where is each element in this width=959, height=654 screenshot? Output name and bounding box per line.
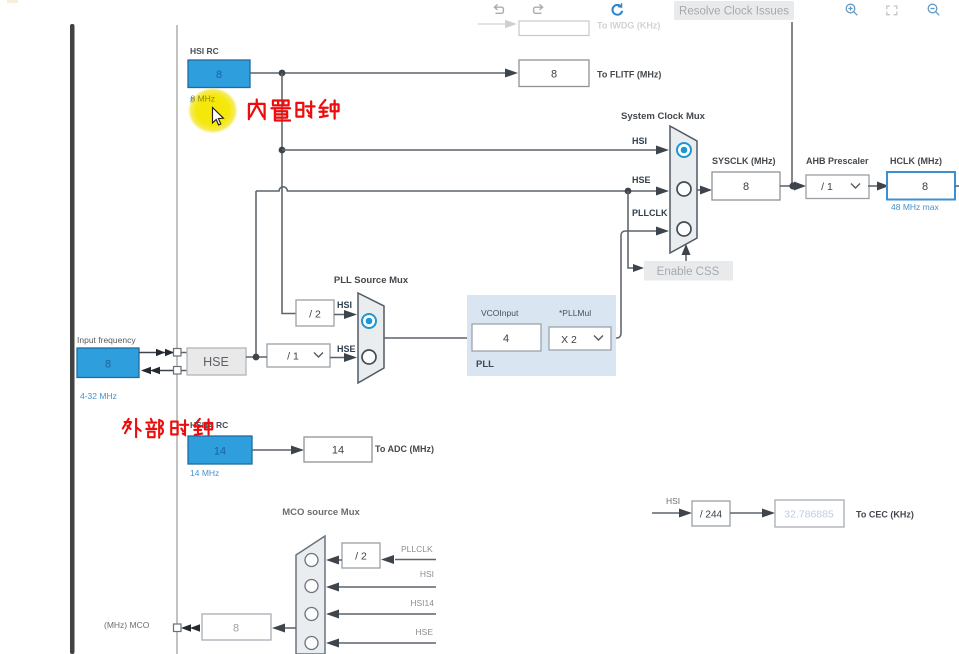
/2 divider box — [296, 300, 334, 326]
svg-text:14: 14 — [332, 445, 344, 457]
To FLITF value box — [519, 60, 589, 87]
svg-text:Input frequency: Input frequency — [77, 335, 136, 345]
To ADC value box — [304, 437, 372, 462]
glyph nei — [249, 99, 265, 119]
CEC value box — [775, 500, 844, 527]
AHB Prescaler dropdown — [806, 175, 869, 199]
CSS arrow into mux bottom — [685, 253, 687, 261]
junction HSE — [253, 354, 260, 361]
arrowhead HSE into system clock mux — [656, 187, 669, 196]
svg-text:/ 2: / 2 — [355, 551, 367, 563]
wire /2 mco to mux — [337, 559, 342, 561]
svg-text:PLLCLK: PLLCLK — [401, 544, 433, 554]
wire /2 to PLL mux — [334, 314, 346, 316]
HSI14 RC oscillator block — [188, 436, 252, 464]
MCO value box — [202, 614, 271, 640]
wire PLL mux to VCOInput — [384, 337, 472, 339]
wire HSE block out — [246, 356, 267, 358]
radio MCO hse — [305, 637, 318, 650]
svg-text:Enable CSS: Enable CSS — [657, 266, 720, 278]
PLLMul dropdown — [549, 327, 611, 350]
faded wire to IWDG box — [478, 23, 506, 25]
svg-text:4-32 MHz: 4-32 MHz — [80, 391, 117, 401]
MCO mux body — [296, 536, 325, 654]
port square HSE out — [174, 367, 182, 375]
port square HSE in — [174, 349, 182, 357]
svg-text:HSI: HSI — [337, 300, 352, 310]
svg-text:To CEC (KHz): To CEC (KHz) — [856, 510, 914, 520]
Enable CSS button — [644, 261, 733, 281]
faded arrowhead IWDG — [505, 20, 517, 28]
arrowhead into FLITF box — [505, 69, 518, 78]
glyph zhong2 — [194, 419, 212, 436]
radio MCO pllclk — [305, 554, 318, 567]
arrowhead HSI into system clock mux — [656, 146, 669, 155]
svg-text:AHB Prescaler: AHB Prescaler — [806, 156, 869, 166]
svg-text:/ 1: / 1 — [287, 351, 299, 363]
wire mux to MCO value box — [284, 627, 296, 629]
radio MCO hsi — [305, 580, 318, 593]
svg-text:HSI: HSI — [632, 136, 647, 146]
left dark splitter bar — [70, 24, 75, 654]
arrowhead into Enable CSS — [633, 264, 644, 272]
junction HSI at x282 — [279, 70, 286, 77]
toolbar refresh icon — [613, 3, 623, 14]
red annotation: 外部时钟 — [123, 419, 212, 438]
svg-text:PLL: PLL — [476, 359, 494, 370]
svg-text:*PLLMul: *PLLMul — [559, 308, 591, 318]
svg-text:MCO source Mux: MCO source Mux — [282, 507, 360, 518]
wire sysmux output to SYSCLK box — [697, 189, 701, 191]
mouse cursor — [213, 108, 224, 126]
toolbar redo icon — [534, 4, 543, 13]
svg-text:HCLK (MHz): HCLK (MHz) — [890, 156, 942, 166]
top-left faint artifact — [7, 0, 18, 3]
svg-text:HSI: HSI — [666, 496, 680, 506]
radio MCO hsi14 — [305, 608, 318, 621]
toolbar zoom-out icon — [928, 4, 939, 15]
SYSCLK value box — [712, 172, 780, 200]
wire HSI vertical trunk — [282, 73, 296, 314]
MCO out double arrows — [181, 624, 191, 631]
Input frequency blue box — [77, 348, 139, 378]
svg-text:HSE: HSE — [203, 355, 229, 369]
svg-text:/ 2: / 2 — [309, 309, 321, 321]
svg-text:HSI14: HSI14 — [410, 598, 434, 608]
glyph bu — [146, 419, 163, 438]
svg-text:To ADC (MHz): To ADC (MHz) — [375, 444, 434, 454]
svg-text:To FLITF (MHz): To FLITF (MHz) — [597, 70, 661, 80]
red annotation: 内置时钟 — [249, 99, 339, 120]
svg-text:4: 4 — [503, 333, 509, 345]
svg-text:/ 244: / 244 — [700, 510, 723, 521]
PLL block background — [467, 295, 616, 376]
wire HSI RC to FLITF — [250, 72, 505, 74]
HSE oscillator block — [187, 348, 246, 375]
svg-text:32.786885: 32.786885 — [784, 509, 834, 521]
svg-text:(MHz) MCO: (MHz) MCO — [104, 620, 150, 630]
svg-text:HSI: HSI — [420, 569, 434, 579]
arrowhead PLLCLK into system clock mux — [656, 227, 669, 236]
wire HSE trunk up and to system clock mux with hop — [256, 187, 656, 357]
radio PLL HSI selected — [362, 314, 376, 328]
wire HCLK continue right — [955, 185, 959, 187]
toolbar zoom-in icon — [846, 4, 857, 15]
wire HSI to system clock mux — [282, 149, 656, 151]
wire /244 to CEC box — [730, 512, 764, 514]
wire HSE down to Enable CSS — [628, 191, 634, 268]
junction HSE to CSS — [625, 188, 632, 195]
wire HSE into mux — [337, 642, 436, 644]
svg-text:14: 14 — [214, 446, 226, 458]
wire SYSCLK to AHB with riser — [780, 185, 795, 187]
system clock mux body — [670, 126, 697, 253]
toolbar Resolve Clock Issues button — [674, 1, 794, 20]
svg-text:8: 8 — [551, 69, 557, 81]
HSI RC oscillator block — [188, 60, 250, 88]
radio HSI selected — [677, 143, 691, 157]
HCLK value box blue border — [887, 172, 955, 200]
/2 mco divider box — [342, 543, 380, 568]
wire HSI into mux — [337, 586, 436, 588]
toolbar undo icon — [494, 4, 503, 13]
wire AHB to HCLK — [868, 185, 878, 187]
radio HSE — [677, 182, 691, 196]
svg-text:PLL Source Mux: PLL Source Mux — [334, 275, 409, 286]
glyph zhi — [271, 100, 290, 120]
/244 divider box — [692, 501, 730, 526]
PLL source mux body — [358, 293, 384, 383]
svg-text:Resolve Clock Issues: Resolve Clock Issues — [679, 6, 789, 18]
junction HSI to sysmux — [279, 147, 286, 154]
svg-text:48 MHz max: 48 MHz max — [891, 202, 939, 212]
svg-text:VCOInput: VCOInput — [481, 308, 519, 318]
highlight circle around cursor — [188, 88, 238, 134]
wire input freq to HSE in — [139, 352, 174, 354]
svg-text:8: 8 — [233, 623, 239, 635]
svg-text:System Clock Mux: System Clock Mux — [621, 111, 706, 122]
svg-text:PLLCLK: PLLCLK — [632, 208, 668, 218]
radio PLLCLK — [677, 222, 691, 236]
svg-text:8: 8 — [216, 69, 222, 81]
svg-text:HSI RC: HSI RC — [190, 46, 219, 56]
wire PLLCLK from PLL to system clock mux — [611, 231, 656, 338]
wire /1 to PLL mux — [330, 357, 346, 359]
wire PLLCLK into /2 mco — [395, 559, 436, 561]
glyph zhong — [319, 100, 338, 119]
svg-text:X 2: X 2 — [561, 334, 577, 346]
glyph shi2 — [171, 420, 188, 435]
clock tree left boundary line — [176, 25, 178, 654]
svg-text:8 MHz: 8 MHz — [191, 94, 216, 104]
svg-text:To IWDG (KHz): To IWDG (KHz) — [597, 21, 660, 31]
VCOInput value box — [472, 324, 541, 351]
radio PLL HSE — [362, 350, 376, 364]
svg-text:/ 1: / 1 — [821, 181, 833, 193]
toolbar fit-to-screen icon — [887, 6, 897, 15]
wire HSI to /244 — [652, 512, 681, 514]
port square MCO — [174, 624, 182, 632]
wire HSE out to input side — [157, 370, 174, 372]
svg-text:SYSCLK (MHz): SYSCLK (MHz) — [712, 156, 776, 166]
svg-text:8: 8 — [105, 359, 111, 371]
svg-text:8: 8 — [922, 181, 928, 193]
svg-text:8: 8 — [743, 181, 749, 193]
svg-text:HSE: HSE — [632, 175, 651, 185]
wire HSI14 to ADC — [252, 449, 292, 451]
glyph shi — [296, 101, 314, 117]
faded To IWDG value box — [519, 21, 589, 36]
HSE prescaler dropdown /1 — [267, 344, 330, 367]
glyph wai — [123, 419, 141, 437]
svg-text:HSE: HSE — [337, 344, 356, 354]
wire HSI14 into mux — [337, 613, 436, 615]
svg-text:HSE: HSE — [416, 627, 434, 637]
svg-text:14 MHz: 14 MHz — [190, 468, 219, 478]
